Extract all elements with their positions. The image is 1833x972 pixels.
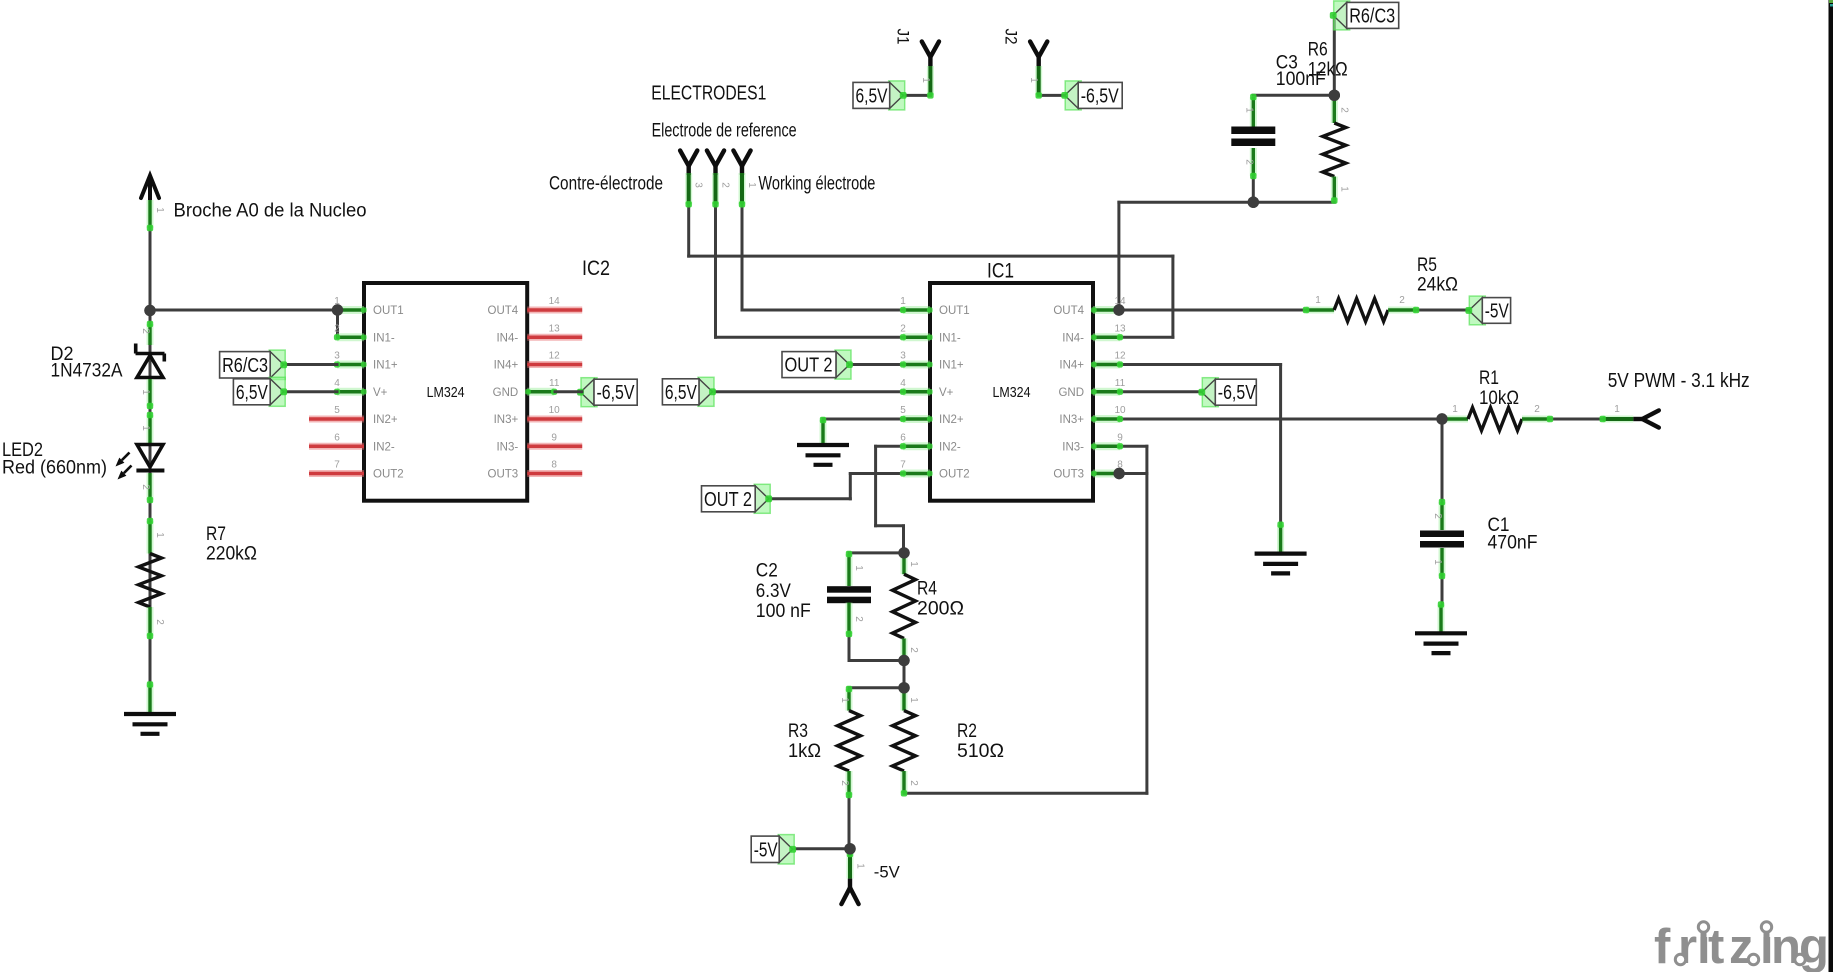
svg-text:R1: R1 <box>1479 368 1499 389</box>
svg-text:-5V: -5V <box>874 863 901 882</box>
pin 3 IC2 IN1+ <box>337 361 364 369</box>
wire electrode 2 to IC1 IN1- <box>716 336 902 339</box>
resistor R2 510 <box>901 689 908 711</box>
svg-text:5V PWM - 3.1 kHz: 5V PWM - 3.1 kHz <box>1608 370 1750 392</box>
wire C1 bottom lead <box>1441 576 1444 605</box>
connector ELECTRODES1 pin 3 electrode de reference <box>680 151 697 167</box>
node C3-R6 bottom junction <box>1248 197 1259 208</box>
pin 7 IC2 OUT2 <box>309 470 364 477</box>
svg-text:2: 2 <box>908 780 919 786</box>
pin 14 IC1 OUT4 <box>1093 306 1120 314</box>
node R4 bottom junction top <box>898 655 909 666</box>
wire IN2+ ground drop <box>822 419 825 432</box>
node OUT4 junction top <box>1113 304 1124 315</box>
pin 10 IC1 IN3+ <box>1093 415 1120 423</box>
svg-text:GND: GND <box>1058 387 1084 399</box>
svg-text:24kΩ: 24kΩ <box>1417 275 1458 296</box>
svg-text:J2: J2 <box>1002 29 1021 45</box>
node C3 junction top <box>1248 197 1259 208</box>
svg-text:1: 1 <box>1614 404 1620 415</box>
svg-text:1: 1 <box>1432 559 1443 565</box>
svg-text:IN2+: IN2+ <box>939 414 964 426</box>
antenna J1 <box>922 42 939 58</box>
connector ELECTRODES1 pin 1 working electrode <box>733 151 750 167</box>
resistor R6 12k <box>1331 97 1338 123</box>
resistor R7 220k <box>147 521 154 554</box>
node OUT3 junction top <box>1113 468 1124 479</box>
pin 12 IC2 IN4+ <box>527 361 582 368</box>
svg-text:-6,5V: -6,5V <box>1218 382 1257 404</box>
svg-text:6.3V: 6.3V <box>756 581 791 602</box>
svg-text:3: 3 <box>900 351 906 362</box>
arrow Broche A0 connector <box>141 176 159 199</box>
svg-text:IN1+: IN1+ <box>373 360 398 372</box>
pin 5 IC1 IN2+ <box>903 415 930 423</box>
svg-text:OUT4: OUT4 <box>488 305 519 317</box>
wire IC1 OUT3 right <box>1121 472 1147 475</box>
pin 10 IC2 IN3+ <box>527 416 582 423</box>
net flag -5V bottom <box>778 835 794 864</box>
svg-text:IN3-: IN3- <box>1062 441 1084 453</box>
net flag R6/C3 at IC2 IN1+ <box>269 350 285 379</box>
node OUT3 junction <box>1113 468 1124 479</box>
wire C2 bottom to R4 bottom <box>849 659 904 662</box>
resistor R3 1k <box>846 689 853 711</box>
pin 1 PWM stub <box>1603 416 1634 423</box>
ground GND3 at IC1 IN4+ <box>1277 525 1284 552</box>
svg-text:10: 10 <box>549 405 561 416</box>
svg-text:IN1-: IN1- <box>373 332 395 344</box>
svg-text:1: 1 <box>853 565 864 571</box>
svg-text:R7: R7 <box>206 524 226 545</box>
node junction IC2 OUT1 <box>332 304 343 315</box>
pin 6 IC1 IN2- <box>903 442 930 450</box>
svg-text:1: 1 <box>1315 295 1321 306</box>
node A0 junction top <box>144 305 155 316</box>
wire R6/C3 flag drop <box>1333 15 1336 95</box>
svg-text:Working électrode: Working électrode <box>758 174 875 195</box>
svg-text:OUT1: OUT1 <box>939 305 970 317</box>
svg-text:1: 1 <box>1338 186 1349 192</box>
wire IN2- jog right <box>876 524 904 527</box>
node R1 junction top <box>1436 413 1447 424</box>
svg-text:R3: R3 <box>788 721 808 742</box>
wire J2 to -6,5V flag <box>1039 94 1066 97</box>
net flag R6/C3 top <box>1334 1 1350 30</box>
pin 8 IC2 OUT3 <box>527 470 582 477</box>
node R1-C1 junction <box>1436 413 1447 424</box>
svg-text:2: 2 <box>1399 295 1405 306</box>
wire IC1 OUT2 left <box>850 472 901 475</box>
svg-text:3: 3 <box>693 182 704 188</box>
node -5V junction <box>844 843 855 854</box>
wire IC1 OUT4 to R5 <box>1119 309 1306 312</box>
wire C2 bottom lead <box>848 634 851 661</box>
wire IC1 IN3+ to R1 node <box>1121 418 1442 421</box>
svg-text:1: 1 <box>920 77 931 83</box>
svg-text:-6,5V: -6,5V <box>597 382 636 404</box>
svg-text:1: 1 <box>908 561 919 567</box>
LED LED2 Red 660nm <box>147 415 154 443</box>
svg-text:R6/C3: R6/C3 <box>1349 5 1395 27</box>
svg-text:200Ω: 200Ω <box>917 599 964 620</box>
pin 1 IC2 OUT1 <box>337 306 364 314</box>
wire electrode 1 to IC1 OUT1 <box>742 309 902 312</box>
net flag OUT 2 at IC1 IN1+ <box>835 350 851 379</box>
node -5V junction top <box>844 843 855 854</box>
net flag 6,5V at IC1 V+ <box>698 377 714 406</box>
node A junction top <box>898 547 909 558</box>
pin 14 IC2 OUT4 <box>527 307 582 314</box>
svg-text:1: 1 <box>1452 404 1458 415</box>
op-amp IC2 LM324 body <box>364 283 527 501</box>
diode D2 zener 1N4732A <box>147 324 154 345</box>
svg-text:LM324: LM324 <box>993 385 1031 401</box>
node R6/C3 top junction <box>1329 90 1340 101</box>
wire electrode 2 down <box>714 166 717 337</box>
svg-text:GND: GND <box>493 387 519 399</box>
svg-text:2: 2 <box>334 323 340 334</box>
svg-text:9: 9 <box>551 432 557 443</box>
svg-text:6: 6 <box>900 432 906 443</box>
svg-text:IC2: IC2 <box>582 257 610 280</box>
wire IN4+ down to ground <box>1279 365 1282 525</box>
ground GND4 under C1 <box>1438 605 1445 632</box>
pin 8 IC1 OUT3 <box>1093 470 1120 478</box>
svg-text:IN4-: IN4- <box>496 332 518 344</box>
pin 3 IC1 IN1+ <box>903 361 930 369</box>
svg-text:Broche A0 de la Nucleo: Broche A0 de la Nucleo <box>174 201 367 222</box>
svg-text:IN2-: IN2- <box>939 441 961 453</box>
svg-text:-5V: -5V <box>1485 300 1510 322</box>
node junction A0 <box>144 305 155 316</box>
svg-text:4: 4 <box>334 378 340 389</box>
svg-text:7: 7 <box>900 460 906 471</box>
resistor R1 10k <box>1442 416 1468 423</box>
pin 6 IC2 IN2- <box>309 443 364 450</box>
wire 6,5V flag to IC1 V+ <box>713 390 902 393</box>
net flag 6,5V at J1 <box>889 81 905 110</box>
svg-text:12: 12 <box>1114 351 1126 362</box>
svg-text:2: 2 <box>839 780 850 786</box>
ground GND1 under R7 <box>147 685 154 713</box>
svg-text:13: 13 <box>549 323 561 334</box>
svg-text:13: 13 <box>1114 323 1126 334</box>
pin 13 IC2 IN4- <box>527 334 582 341</box>
svg-text:OUT2: OUT2 <box>939 469 970 481</box>
net flag -6,5V at IC1 GND <box>1202 378 1218 407</box>
svg-text:2: 2 <box>154 619 165 625</box>
wire OUT2 down <box>849 474 852 499</box>
svg-text:IN2-: IN2- <box>373 441 395 453</box>
wire OUT2 to flag <box>768 497 850 500</box>
antenna -5V supply <box>847 854 854 879</box>
capacitor C3 100nF <box>1250 97 1257 127</box>
svg-text:510Ω: 510Ω <box>957 741 1004 762</box>
svg-text:6,5V: 6,5V <box>856 85 889 107</box>
svg-text:2: 2 <box>1534 404 1540 415</box>
svg-text:2: 2 <box>719 182 730 188</box>
resistor R5 24k <box>1306 307 1334 314</box>
pin 4 IC1 V+ <box>903 388 930 396</box>
pin 9 IC2 IN3- <box>527 443 582 450</box>
wire R1 to PWM pin <box>1550 418 1603 421</box>
pin 11 IC1 GND <box>1093 388 1120 396</box>
svg-text:OUT 2: OUT 2 <box>785 355 833 377</box>
svg-text:IN4+: IN4+ <box>1059 360 1084 372</box>
svg-text:6,5V: 6,5V <box>236 382 269 404</box>
svg-text:2: 2 <box>853 616 864 622</box>
op-amp IC1 LM324 body <box>930 283 1093 501</box>
net flag -6,5V at J2 <box>1065 81 1081 110</box>
wire electrode ref down <box>687 166 690 256</box>
pin 2 IC1 IN1- <box>903 333 930 341</box>
svg-text:1: 1 <box>908 697 919 703</box>
svg-text:IC1: IC1 <box>987 260 1014 283</box>
wire IC2 OUT1 to IN1- tie <box>336 310 339 337</box>
svg-text:1: 1 <box>855 863 866 869</box>
svg-text:1: 1 <box>900 296 906 307</box>
svg-text:IN2+: IN2+ <box>373 414 398 426</box>
pin 11 IC2 GND <box>527 388 554 396</box>
capacitor C2 100nF 6.3V <box>846 554 853 586</box>
net flag OUT 2 at IC1 OUT2 <box>754 484 770 513</box>
svg-text:4: 4 <box>900 378 906 389</box>
antenna 5V PWM output <box>1642 410 1659 427</box>
svg-text:OUT1: OUT1 <box>373 305 404 317</box>
pin 13 IC1 IN4- <box>1093 333 1120 341</box>
node OUT1 junction top <box>332 304 343 315</box>
svg-text:1kΩ: 1kΩ <box>788 741 821 762</box>
svg-text:Red (660nm): Red (660nm) <box>2 458 107 479</box>
wire C1 top lead <box>1441 419 1444 502</box>
capacitor C1 470nF <box>1439 502 1446 530</box>
wire net y256 horizontal <box>689 255 1173 258</box>
svg-text:5: 5 <box>900 405 906 416</box>
svg-text:1: 1 <box>839 697 850 703</box>
svg-text:R2: R2 <box>957 721 977 742</box>
wire R5 to -5V flag <box>1416 309 1467 312</box>
svg-text:2: 2 <box>908 647 919 653</box>
svg-text:220kΩ: 220kΩ <box>206 544 257 565</box>
svg-text:3: 3 <box>334 351 340 362</box>
net flag -5V at R5 <box>1469 296 1485 325</box>
pin 1 IC1 OUT1 <box>903 306 930 314</box>
svg-text:C2: C2 <box>756 561 778 582</box>
wire Broche A0 stem to junction <box>149 196 152 311</box>
svg-text:1N4732A: 1N4732A <box>51 361 123 382</box>
svg-text:1: 1 <box>154 207 165 213</box>
svg-text:1: 1 <box>140 425 151 431</box>
wire -5V flag to node <box>794 847 850 850</box>
svg-text:2: 2 <box>140 328 151 334</box>
svg-text:1: 1 <box>140 389 151 395</box>
wire junction A0 to IC2 OUT1 <box>150 309 338 312</box>
svg-text:12: 12 <box>549 351 561 362</box>
svg-text:7: 7 <box>334 460 340 471</box>
net flag 6,5V at IC2 V+ <box>269 377 285 406</box>
svg-text:10kΩ: 10kΩ <box>1479 388 1519 409</box>
svg-text:IN4+: IN4+ <box>494 360 519 372</box>
svg-text:2: 2 <box>900 323 906 334</box>
svg-text:OUT2: OUT2 <box>373 469 404 481</box>
svg-text:Contre-électrode: Contre-électrode <box>549 174 663 195</box>
svg-text:2: 2 <box>1244 159 1255 165</box>
svg-text:OUT4: OUT4 <box>1053 305 1084 317</box>
wire node B to R3 top <box>849 686 904 689</box>
svg-text:OUT 2: OUT 2 <box>704 489 752 511</box>
svg-text:OUT3: OUT3 <box>1053 469 1084 481</box>
svg-text:IN3+: IN3+ <box>1059 414 1084 426</box>
wire J1 to 6,5V flag <box>903 94 931 97</box>
window edge strip <box>1829 0 1833 972</box>
wire node A horizontal to C2 <box>849 551 904 554</box>
svg-text:R5: R5 <box>1417 255 1437 276</box>
pin 7 IC1 OUT2 <box>903 470 930 478</box>
wire IC1 IN4+ right <box>1121 363 1281 366</box>
svg-text:V+: V+ <box>373 387 388 399</box>
svg-text:1: 1 <box>1244 107 1255 113</box>
svg-text:5: 5 <box>334 405 340 416</box>
node R6C3 top junction redraw <box>1329 90 1340 101</box>
wire electrode 1 down <box>741 166 744 310</box>
svg-text:100 nF: 100 nF <box>756 601 811 622</box>
svg-text:V+: V+ <box>939 387 954 399</box>
svg-text:1: 1 <box>1028 77 1039 83</box>
svg-text:OUT3: OUT3 <box>488 469 519 481</box>
pin 2 IC2 IN1- <box>337 333 364 341</box>
svg-text:Electrode de reference: Electrode de reference <box>652 121 797 142</box>
svg-text:t: t <box>1708 920 1724 972</box>
svg-text:2: 2 <box>1432 513 1443 519</box>
svg-text:470nF: 470nF <box>1488 533 1538 554</box>
wire node B vertical <box>903 661 906 688</box>
node A junction <box>898 547 909 558</box>
svg-text:11: 11 <box>1115 378 1126 389</box>
wire IC1 IN2- left <box>876 445 902 448</box>
pin 9 IC1 IN3- <box>1093 442 1120 450</box>
svg-text:6,5V: 6,5V <box>665 382 698 404</box>
svg-text:IN3-: IN3- <box>496 441 518 453</box>
svg-text:-5V: -5V <box>754 840 779 862</box>
wire C3 bottom lead <box>1252 176 1255 202</box>
pin 5 IC2 IN2+ <box>309 416 364 423</box>
svg-text:IN4-: IN4- <box>1062 332 1084 344</box>
svg-text:1: 1 <box>746 182 757 188</box>
svg-text:6: 6 <box>334 432 340 443</box>
wire D2-LED2-R7 chain <box>149 311 152 714</box>
wire to IC1 IN4- <box>1121 336 1173 339</box>
svg-text:R4: R4 <box>917 579 937 600</box>
svg-text:f: f <box>1654 920 1671 972</box>
node B junction <box>898 682 909 693</box>
wire IC1 IN2+ to ground <box>823 418 902 421</box>
pin 4 IC2 V+ <box>337 388 364 396</box>
wire RC bottom rail <box>1119 201 1334 204</box>
svg-text:ELECTRODES1: ELECTRODES1 <box>651 83 766 105</box>
connector ELECTRODES1 pin 2 contre-electrode <box>707 151 724 167</box>
svg-text:2: 2 <box>140 484 151 490</box>
node B junction top <box>898 682 909 693</box>
wire feedback bottom to R2 <box>904 792 1147 795</box>
svg-text:2: 2 <box>1338 107 1349 113</box>
wire IC1 GND to -6,5V flag <box>1121 390 1203 393</box>
wire R6 top to C3 top <box>1253 94 1334 97</box>
svg-text:IN1-: IN1- <box>939 332 961 344</box>
svg-text:1: 1 <box>154 532 165 538</box>
svg-text:R6/C3: R6/C3 <box>222 355 268 377</box>
pin 12 IC1 IN4+ <box>1093 361 1120 369</box>
wire IN2- to node A <box>902 526 905 553</box>
svg-text:R6: R6 <box>1308 40 1328 61</box>
wire IN2- down <box>874 446 877 526</box>
svg-text:LM324: LM324 <box>427 385 465 401</box>
wire 6,5V flag to IC2 V+ <box>284 390 337 393</box>
wire OUT4 up to RC node <box>1117 202 1120 310</box>
wire R6/C3 flag to IC2 IN1+ <box>284 363 337 366</box>
svg-text:14: 14 <box>549 296 561 307</box>
antenna J2 <box>1030 42 1047 58</box>
svg-text:8: 8 <box>551 460 557 471</box>
svg-text:9: 9 <box>1117 432 1123 443</box>
wire feedback vertical x1147 <box>1145 446 1148 793</box>
resistor R4 200 <box>901 554 908 574</box>
svg-text:11: 11 <box>549 378 560 389</box>
net flag -6,5V at IC2 GND <box>581 378 597 407</box>
svg-text:-6,5V: -6,5V <box>1081 85 1120 107</box>
svg-text:10: 10 <box>1114 405 1126 416</box>
svg-text:12kΩ: 12kΩ <box>1308 60 1348 81</box>
wire IC2 GND to flag <box>555 390 582 393</box>
node OUT4 junction <box>1113 304 1124 315</box>
wire IC1 IN3- right <box>1121 445 1147 448</box>
svg-text:J1: J1 <box>894 29 913 45</box>
wire net x1173 vertical <box>1171 256 1174 337</box>
svg-text:IN1+: IN1+ <box>939 360 964 372</box>
wire OUT 2 flag to IC1 IN1+ <box>851 363 902 366</box>
svg-text:IN3+: IN3+ <box>494 414 519 426</box>
wire R3 bottom to -5V node <box>848 795 851 849</box>
ground GND2 at IC1 IN2+ <box>820 420 827 444</box>
node R4 bottom junction <box>898 655 909 666</box>
